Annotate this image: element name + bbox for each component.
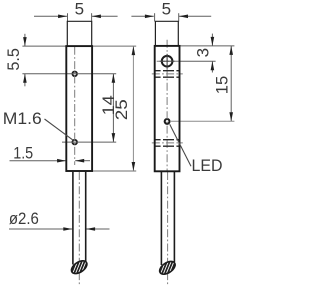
svg-text:M1.6: M1.6 xyxy=(3,109,42,128)
svg-text:5.5: 5.5 xyxy=(4,48,23,71)
svg-text:25: 25 xyxy=(112,99,131,120)
svg-text:1.5: 1.5 xyxy=(13,144,33,163)
svg-text:15: 15 xyxy=(212,76,231,95)
svg-text:3: 3 xyxy=(193,48,212,57)
svg-text:5: 5 xyxy=(162,0,171,18)
svg-text:5: 5 xyxy=(75,0,84,18)
svg-text:LED: LED xyxy=(192,156,223,175)
svg-text:ø2.6: ø2.6 xyxy=(9,209,39,228)
